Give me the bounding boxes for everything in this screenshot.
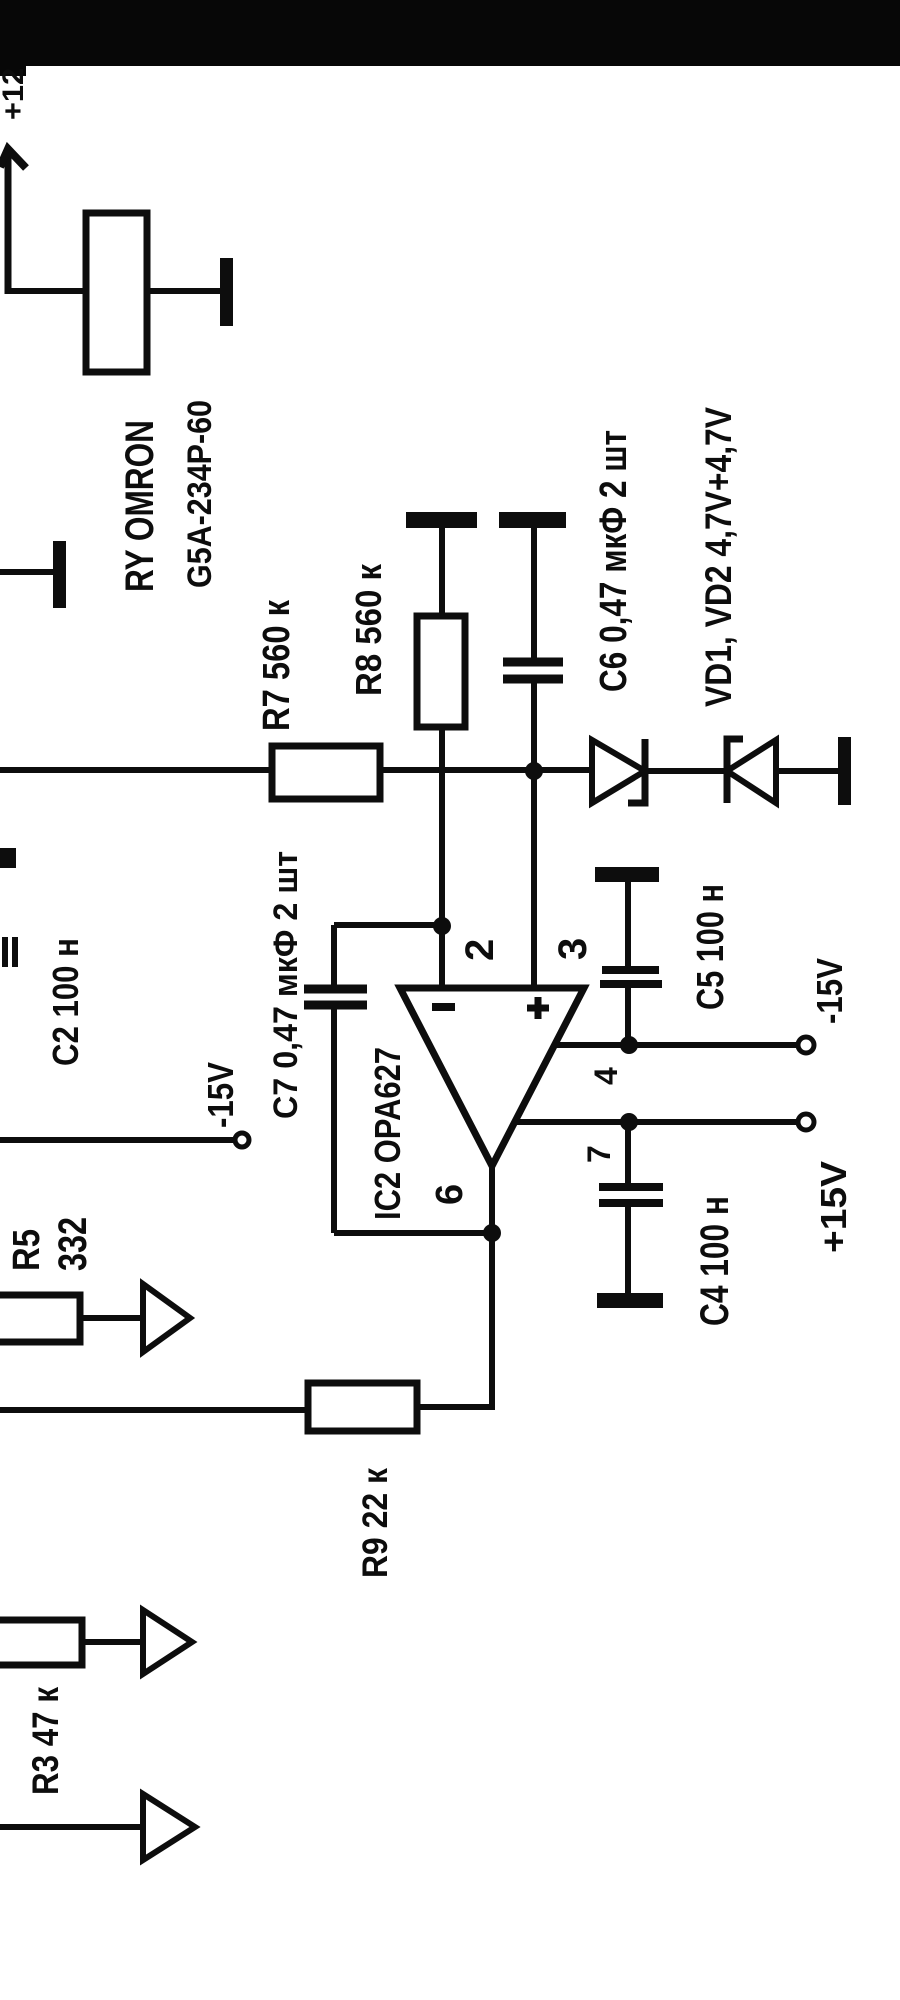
pin 6 label: [429, 1184, 471, 1205]
label -15V left: [200, 1062, 241, 1128]
label C4 100 n: [693, 1196, 737, 1326]
wire R8 top: [439, 528, 445, 616]
diode VD1 zener: [592, 740, 645, 803]
svg-text:C6 0,47 мкФ 2 шт: C6 0,47 мкФ 2 шт: [593, 430, 635, 692]
capacitor C6: [531, 528, 537, 659]
capacitor C7: [331, 925, 337, 987]
label R9 22 k: [356, 1468, 395, 1578]
label C5 100 n: [690, 884, 732, 1010]
pin 2 label: [458, 939, 502, 961]
svg-text:C5 100 н: C5 100 н: [690, 884, 732, 1010]
svg-text:332: 332: [51, 1217, 95, 1271]
label C7: [267, 851, 305, 1119]
svg-text:C4 100 н: C4 100 н: [693, 1196, 737, 1326]
connector arrow R3: [143, 1610, 192, 1674]
terminal bar relay: [220, 258, 233, 326]
svg-text:VD1, VD2 4,7V+4,7V: VD1, VD2 4,7V+4,7V: [698, 407, 739, 707]
wire R9 left: [0, 1407, 308, 1413]
svg-text:RY OMRON: RY OMRON: [118, 420, 162, 592]
wire pin7 to +15V: [516, 1119, 797, 1125]
svg-text:-15V: -15V: [809, 958, 850, 1024]
resistor R5: [0, 1295, 80, 1342]
wire relay right: [147, 288, 222, 294]
connector arrow R5: [143, 1284, 190, 1352]
junction node pin7/C4: [620, 1113, 638, 1131]
svg-text:+15V: +15V: [813, 1161, 854, 1253]
resistor R7: [272, 746, 380, 799]
junction node output/C7: [483, 1224, 501, 1242]
label C2 100 n: [45, 938, 86, 1066]
svg-text:2: 2: [458, 939, 502, 961]
svg-text:7: 7: [581, 1145, 617, 1163]
label +15V: [813, 1161, 854, 1253]
svg-text:R9 22 к: R9 22 к: [356, 1468, 395, 1578]
wire pin4 to -15V: [556, 1042, 797, 1048]
svg-text:-15V: -15V: [200, 1062, 241, 1128]
label IC2 OPA627: [367, 1047, 408, 1220]
svg-text:C7 0,47 мкФ 2 шт: C7 0,47 мкФ 2 шт: [267, 851, 305, 1119]
terminal +15V: [798, 1114, 814, 1130]
diode VD2 zener: [727, 739, 743, 803]
svg-text:3: 3: [551, 938, 595, 960]
wire C6 bottom to pin3: [531, 683, 537, 988]
svg-text:R3 47 к: R3 47 к: [25, 1687, 66, 1795]
relay label RY OMRON: [118, 420, 162, 592]
wire C7 top: [334, 922, 442, 928]
terminal -15V: [798, 1037, 814, 1053]
capacitor C2: [2, 937, 8, 967]
power bar R8 top: [406, 512, 477, 528]
relay label G5A-234P-60: [181, 400, 219, 588]
svg-text:R7 560 к: R7 560 к: [256, 599, 298, 731]
label -15V right: [809, 958, 850, 1024]
wire main node y770: [0, 767, 272, 773]
op-amp IC2: [400, 988, 584, 1166]
resistor R9: [308, 1383, 417, 1431]
wire VD2 right: [776, 768, 840, 774]
wire R5 right: [80, 1315, 143, 1321]
wire VD1-VD2: [645, 768, 727, 774]
wire C7 bottom to output: [334, 1230, 492, 1236]
wire output pin6: [417, 1166, 492, 1407]
wire +12V arrow: [5, 150, 12, 294]
svg-text:+12: +12: [0, 68, 30, 120]
label R8 560 k: [348, 563, 389, 696]
relay RY coil: [86, 213, 147, 372]
power bar C5 top: [595, 867, 659, 882]
svg-text:6: 6: [429, 1184, 471, 1205]
svg-text:C2 100 н: C2 100 н: [45, 938, 86, 1066]
ground bar C4: [597, 1293, 663, 1308]
wire R7 to VD1: [380, 767, 592, 773]
terminal bar small left edge: [0, 848, 16, 868]
label R3 47 k: [25, 1687, 66, 1795]
terminal -15V left: [235, 1133, 249, 1147]
junction node R7/C6: [525, 762, 543, 780]
resistor R3: [0, 1620, 82, 1665]
label R7 560 k: [256, 599, 298, 731]
capacitor C5: [625, 882, 631, 967]
wire R8 bottom to pin2: [439, 727, 445, 988]
svg-text:4: 4: [588, 1067, 624, 1085]
junction node pin2/C7: [433, 917, 451, 935]
terminal bar VD right: [838, 737, 851, 805]
label R5: [6, 1229, 48, 1271]
label VD1 VD2: [698, 407, 739, 707]
pin 3 label: [551, 938, 595, 960]
node +12V label: [0, 68, 30, 120]
wire -15V left: [0, 1137, 235, 1143]
pin 4 label: [588, 1067, 624, 1085]
svg-text:R8 560 к: R8 560 к: [348, 563, 389, 696]
label 332: [51, 1217, 95, 1271]
resistor R8: [417, 616, 465, 727]
svg-text:IC2 OPA627: IC2 OPA627: [367, 1047, 408, 1220]
wire relay left: [8, 288, 88, 294]
wire bottom input: [0, 1824, 143, 1830]
pin 7 label: [581, 1145, 617, 1163]
junction node pin4/C5: [620, 1036, 638, 1054]
connector arrow bottom: [143, 1794, 195, 1860]
wire left terminal: [0, 569, 55, 575]
svg-text:R5: R5: [6, 1229, 48, 1271]
capacitor C4: [625, 1122, 631, 1185]
label C6: [593, 430, 635, 692]
wire R3 right: [82, 1639, 143, 1645]
svg-text:G5A-234P-60: G5A-234P-60: [181, 400, 219, 588]
terminal bar left: [53, 541, 66, 608]
power bar C6 top: [499, 512, 566, 528]
